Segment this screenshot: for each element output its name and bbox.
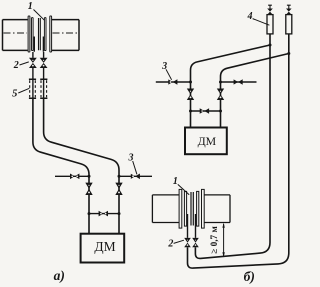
svg-text:б): б) <box>244 269 255 284</box>
svg-text:3: 3 <box>128 153 134 164</box>
svg-text:4: 4 <box>247 11 253 22</box>
svg-text:ДМ: ДМ <box>94 239 115 254</box>
svg-text:3: 3 <box>161 61 167 72</box>
svg-text:ДМ: ДМ <box>198 134 217 148</box>
svg-text:2: 2 <box>13 60 19 71</box>
svg-text:≥ 0,7 м: ≥ 0,7 м <box>210 225 220 253</box>
svg-text:5: 5 <box>12 88 17 99</box>
svg-text:а): а) <box>54 268 65 283</box>
svg-text:1: 1 <box>28 1 33 12</box>
svg-text:2: 2 <box>167 239 173 250</box>
svg-text:1: 1 <box>173 176 178 187</box>
